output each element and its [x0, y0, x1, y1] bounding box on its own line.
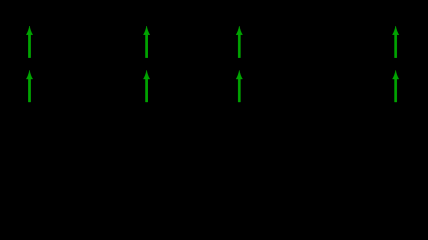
arrow A3 top (column 3, upper buy arrow) — [236, 26, 242, 58]
arrow A2 bottom (column 2, lower buy arrow) — [143, 70, 149, 102]
arrow A1 bottom (column 1, lower buy arrow) — [26, 70, 32, 102]
arrow A3 bottom (column 3, lower buy arrow) — [236, 70, 242, 102]
arrow A1 top (column 1, upper buy arrow) — [26, 26, 32, 58]
arrow A4 bottom (column 4, lower buy arrow) — [392, 70, 398, 102]
arrow A4 top (column 4, upper buy arrow) — [392, 26, 398, 58]
arrow A2 top (column 2, upper buy arrow) — [143, 26, 149, 58]
